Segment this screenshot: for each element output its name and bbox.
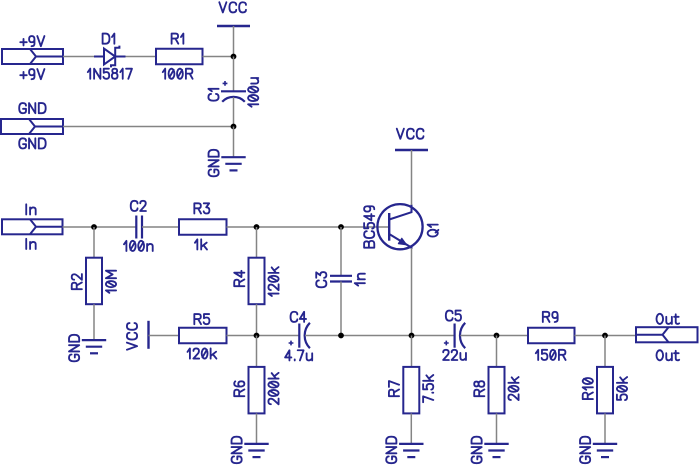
wire node H to R10 [604,336,606,367]
junction node VCC [231,54,237,60]
label R9 [543,312,558,322]
ground under R6 [244,444,268,457]
junction node E [338,333,344,339]
wire J3 to node A [63,226,137,228]
value 100u [248,78,258,107]
label GND near R6 [232,437,242,463]
wire R4 to node D [256,304,258,335]
wire R5 to node D [227,335,300,337]
label D1 [103,34,115,44]
label C5 [446,311,461,321]
wire C4 to C5 [305,335,455,337]
wire node C to C3 [340,227,342,276]
label BC549 [364,206,374,247]
wire node to GND symbol [233,127,235,158]
label VCC at Q1 [397,129,424,139]
label C3 [316,272,326,287]
label Q1 [428,225,439,237]
label +9V below J1 [20,69,44,79]
junction gnd node [231,124,237,130]
ground under R10 [593,444,617,457]
value 22u [443,350,466,360]
wire node D to R6 [256,336,258,367]
label VCC at R5 [127,323,137,350]
value 4.7u [285,350,312,360]
wire VCC flag to R5 [149,335,180,337]
wire R2 to ground [93,304,95,340]
wire VCC to collector [411,150,413,205]
value 7.5k [423,375,433,402]
resistor R2 [86,258,102,305]
value 120k [268,267,278,296]
capacitor C1 [221,91,246,102]
diode D1 [94,46,126,68]
ground under R2 [82,340,106,353]
label R6 [234,381,244,396]
resistor R1 [156,49,203,65]
resistor R8 [489,367,505,414]
wire J2 to gnd node [63,126,234,128]
wire D1 to R1 [126,56,157,58]
plus mark C5 [444,341,449,346]
label C4 [291,312,307,322]
label C2 [131,201,146,211]
ground under R7 [399,444,423,457]
junction node G [494,333,500,339]
capacitor C5 [455,323,466,348]
value 120k R5 [187,348,216,358]
resistor R6 [249,367,265,414]
wire node F to R7 [411,336,413,367]
resistor R4 [249,258,265,305]
junction node D [254,333,260,339]
value 1n [355,274,365,286]
wire C5 to R9 [460,335,528,337]
label R10 [583,378,593,399]
wire R3 to Q1 base [227,226,390,228]
resistor R7 [403,367,419,414]
wire C1 to gnd node [233,97,235,126]
capacitor C2 [136,216,142,239]
wire R9 to Out [575,335,637,337]
connector J2 GND [1,119,63,134]
power symbol VCC at R5 [147,321,149,349]
value 150R [536,350,566,360]
label R7 [389,381,399,396]
wire R7 to ground [410,413,412,444]
wire R1 to node VCC [203,56,234,58]
label GND near R8 [472,437,482,463]
value 100n [124,241,153,251]
emitter arrow Q1 [398,238,406,245]
wire J1 to D1 [63,56,94,58]
power symbol VCC top [217,25,250,27]
label R1 [172,34,184,44]
junction node C [338,224,344,230]
value 1N5817 [88,69,132,79]
ground under R8 [484,444,508,457]
resistor R9 [528,328,575,344]
wire node A to R2 [93,227,95,258]
plus mark C4 [289,341,294,346]
power symbol VCC at Q1 [395,149,428,151]
connector J3 In [2,219,63,234]
value 20k [508,377,518,400]
plus mark C1 [223,81,228,86]
label +9V above J1 [20,36,44,46]
transistor Q1 [377,204,422,249]
label GND below J2 [19,138,45,148]
label C1 [208,89,218,101]
wire node G to R8 [496,336,498,367]
junction node A [91,224,97,230]
value 10M [106,271,116,293]
label R8 [474,381,484,396]
value 50k [617,377,627,400]
label In above J3 [26,204,35,214]
wire emitter to node F [411,248,413,336]
label R5 [194,314,209,324]
value 100R [163,69,193,79]
label GND near C1 [209,150,219,176]
label GND near R2 [69,335,79,361]
resistor R3 [179,219,227,235]
label GND near R7 [386,437,396,463]
value 1k [195,239,207,249]
resistor R5 [179,328,227,344]
capacitor C3 [330,276,352,282]
label Out above J4 [656,314,679,324]
wire R8 to ground [496,413,498,444]
junction node F [409,333,415,339]
label GND above J2 [19,103,45,113]
label Out below J4 [656,350,679,360]
label In below J3 [26,239,35,249]
capacitor C4 [299,323,310,348]
label R4 [234,271,244,286]
value 200k [268,373,278,404]
label R2 [72,274,82,289]
connector J4 Out [636,327,698,342]
label GND near R10 [580,437,590,463]
wire C2 to R3 [142,226,179,228]
junction node B [254,224,260,230]
wire C3 to node E [340,282,342,336]
junction node H [602,333,608,339]
wire R6 to ground [256,413,258,444]
resistor R10 [597,367,613,414]
label R3 [194,203,209,213]
wire node to C1 [233,57,235,92]
wire node B to R4 [256,227,258,258]
wire VCC to node [233,26,235,57]
wire R10 to ground [604,413,606,444]
connector J1 +9V [2,49,63,64]
ground under C1 [221,157,245,170]
label VCC top [219,2,246,12]
